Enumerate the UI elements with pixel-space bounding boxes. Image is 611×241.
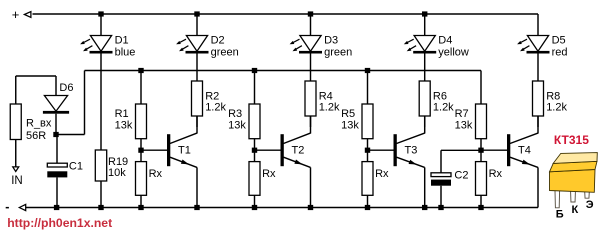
- svg-text:D5: D5: [552, 35, 566, 47]
- svg-text:D4: D4: [438, 35, 452, 47]
- svg-text:blue: blue: [115, 47, 136, 59]
- svg-text:red: red: [552, 47, 568, 59]
- svg-text:+: +: [12, 7, 20, 22]
- svg-text:КТ315: КТ315: [554, 133, 589, 147]
- svg-text:13k: 13k: [115, 119, 133, 131]
- svg-text:1.2k: 1.2k: [319, 101, 340, 113]
- svg-text:Б: Б: [556, 208, 564, 220]
- svg-text:Rx: Rx: [262, 168, 276, 180]
- svg-text:R1: R1: [115, 108, 129, 120]
- svg-text:1.2k: 1.2k: [546, 101, 567, 113]
- svg-text:К: К: [572, 204, 579, 216]
- svg-text:T2: T2: [292, 145, 305, 157]
- svg-text:T3: T3: [405, 145, 418, 157]
- svg-text:IN: IN: [11, 175, 23, 187]
- svg-text:13k: 13k: [455, 119, 473, 131]
- svg-text:R_вх: R_вх: [26, 117, 52, 129]
- svg-text:10k: 10k: [108, 167, 126, 179]
- svg-text:D2: D2: [211, 35, 225, 47]
- svg-text:green: green: [211, 47, 239, 59]
- svg-text:D1: D1: [115, 35, 129, 47]
- svg-text:R3: R3: [228, 108, 242, 120]
- svg-text:56R: 56R: [26, 130, 46, 142]
- svg-text:yellow: yellow: [438, 47, 469, 59]
- svg-text:13k: 13k: [341, 119, 359, 131]
- svg-text:Э: Э: [586, 199, 594, 211]
- svg-text:Rx: Rx: [489, 168, 503, 180]
- svg-text:http://ph0en1x.net: http://ph0en1x.net: [7, 216, 112, 230]
- svg-text:T4: T4: [518, 145, 531, 157]
- svg-text:R5: R5: [341, 108, 355, 120]
- svg-text:13k: 13k: [228, 119, 246, 131]
- svg-text:1.2k: 1.2k: [205, 101, 226, 113]
- svg-text:T1: T1: [178, 145, 191, 157]
- svg-text:Rx: Rx: [375, 168, 389, 180]
- svg-text:C1: C1: [69, 161, 83, 173]
- svg-text:green: green: [324, 47, 352, 59]
- svg-text:D3: D3: [324, 35, 338, 47]
- svg-text:1.2k: 1.2k: [433, 101, 454, 113]
- svg-text:Rx: Rx: [149, 168, 163, 180]
- svg-text:D6: D6: [59, 82, 73, 94]
- svg-text:C2: C2: [454, 170, 468, 182]
- svg-text:R7: R7: [455, 108, 469, 120]
